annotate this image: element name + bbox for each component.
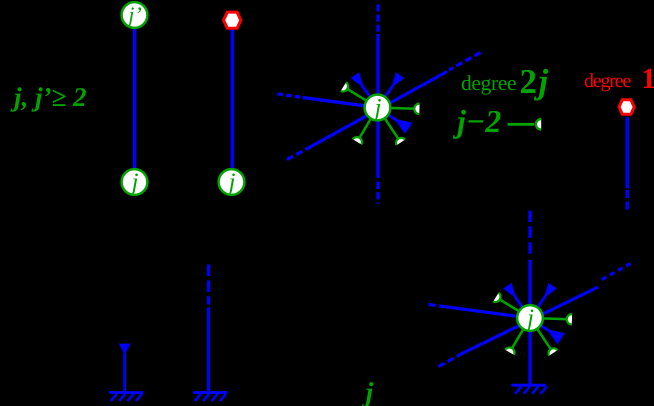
top star diagonal lower-left dashed end [287, 146, 312, 160]
label degree (red) [585, 73, 631, 91]
label degree (green) [462, 75, 516, 95]
vertex label j [372, 99, 381, 121]
ground symbol 1 [109, 391, 143, 394]
top star hair spoke lower-left [359, 108, 378, 140]
label 2j [521, 69, 548, 101]
lower star left half-wire dashed end [429, 305, 447, 307]
lower star hair spoke lower-left [511, 318, 530, 350]
top star hair spoke upper-left [346, 88, 378, 107]
top star half-edge cone upper-left [362, 85, 378, 107]
top star left half-wire [303, 98, 378, 108]
lower star vertex circle j [517, 305, 543, 331]
vertex label j [524, 309, 533, 331]
ground symbol 2 [193, 391, 227, 394]
top star left half-wire dashed end [278, 94, 304, 98]
top star vertical dashed lower end [376, 182, 379, 204]
top star half-edge cone lower-right [378, 108, 397, 121]
top star vertical dashed upper end [376, 4, 379, 33]
wire edge hexagon-j [231, 29, 234, 169]
label 1 [644, 69, 654, 88]
vertex label j’ [126, 7, 141, 26]
vertex label j [226, 173, 235, 195]
lower star left half-wire [446, 307, 530, 318]
top star diagonal through-wire [311, 72, 447, 147]
top star hair spoke right [378, 108, 417, 109]
ground symbol 3 [511, 384, 545, 387]
top star diagonal upper-right dashed end [449, 53, 481, 71]
vertex circle j (bottom of edge 1) [122, 169, 148, 195]
label j-2 [453, 110, 501, 139]
vertex circle j (bottom of edge 2) [219, 169, 245, 195]
top star half-edge cone upper-right [378, 85, 394, 107]
top star hair spoke lower-right [378, 108, 400, 140]
legend hair half-disc [536, 119, 541, 130]
lower star half-edge cone lower-right [530, 318, 549, 331]
lower star hair spoke right [530, 318, 569, 319]
hexagon terminal H1 (degree 1) [224, 12, 241, 28]
wire edge j'-j [133, 27, 136, 169]
lower star diagonal through-wire [459, 287, 598, 355]
lower star diagonal lower-left dashed end [439, 355, 460, 367]
vertex label j [129, 173, 138, 195]
lower star half-edge cone upper-right [530, 296, 546, 318]
hexagon terminal H2 (degree 1) [619, 100, 634, 114]
lower star half-edge cone upper-left [515, 296, 531, 318]
half-edge arrow on leg 1 [119, 344, 131, 355]
top star vertical through-wire [376, 34, 379, 178]
lower star vertical dashed upper end [528, 211, 531, 259]
vertex circle j-prime (top) [122, 2, 148, 28]
wire from hexagon H2 [626, 117, 629, 189]
lower star hair spoke lower-right [530, 318, 552, 350]
wire leg 2 [207, 308, 210, 393]
top star vertex circle j [365, 95, 391, 121]
dashed end of hexagon H2 wire [626, 190, 629, 211]
lower star diagonal upper-right dashed end [600, 264, 631, 281]
legend hair wire [508, 123, 535, 126]
dashed top of leg 2 [207, 265, 210, 305]
label j (bottom) [362, 382, 374, 406]
lower star hair spoke upper-left [499, 299, 531, 318]
wire leg 1 [123, 353, 126, 392]
lower star vertical through-wire [528, 260, 531, 385]
label j, j' >= 2 [10, 87, 85, 111]
